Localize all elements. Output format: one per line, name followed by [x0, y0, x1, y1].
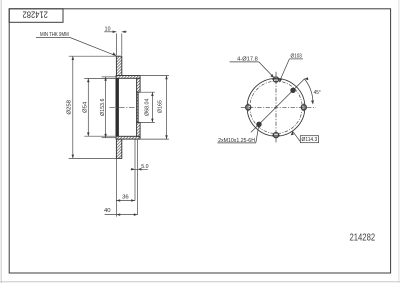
bolt hole bottom (&#216;17.8)	[272, 133, 280, 138]
hub outboard mounting face (thick dark bar)	[116, 78, 119, 136]
bolt hole left (&#216;17.8)	[246, 103, 251, 111]
hub cylinder bottom section (hatched)	[116, 136, 140, 139]
dimension &#216;153.6 (hub inner diameter)	[100, 77, 116, 138]
svg-text:Ø114.3: Ø114.3	[302, 137, 318, 143]
svg-text:MIN THK 9MM: MIN THK 9MM	[40, 32, 69, 38]
section view centerline	[109, 106, 135, 108]
svg-text:Ø258: Ø258	[67, 100, 73, 115]
threaded hole M10 upper-right	[291, 88, 296, 93]
dimension &#216;68.04 (counterbore diameter)	[138, 92, 154, 122]
bolt hole right (&#216;17.8)	[301, 103, 306, 111]
svg-text:Ø165: Ø165	[157, 100, 163, 113]
dimension 5.0 (counterbore depth)	[131, 139, 149, 215]
dimension &#216;258 (outer diameter)	[67, 56, 117, 158]
svg-text:2xM10x1.25-6H: 2xM10x1.25-6H	[218, 138, 255, 144]
dimension &#216;165 (hub outer diameter)	[141, 76, 169, 140]
svg-text:214282: 214282	[350, 233, 376, 244]
part number 214282 top-left (rotated 180)	[23, 8, 48, 19]
svg-text:45°: 45°	[314, 90, 321, 96]
dimension 36 (hub depth)	[116, 158, 135, 216]
threaded hole M10 lower-left	[257, 122, 262, 127]
bolt circle &#216;103 (dashed)	[250, 81, 302, 133]
svg-text:36: 36	[122, 194, 129, 200]
dimension &#216;54 (centre hole)	[83, 78, 116, 136]
bolt hole top (&#216;17.8)	[272, 77, 280, 82]
45 degree diagonal centerline	[251, 79, 305, 133]
svg-text:4-Ø17.8: 4-Ø17.8	[237, 56, 258, 62]
leader note 2xM10x1.25-6H (threaded holes)	[217, 123, 259, 144]
svg-text:Ø153.6: Ø153.6	[100, 99, 106, 116]
dimension 10 (disc thickness)	[104, 26, 127, 55]
leader note &#216;103 (bolt circle)	[279, 54, 303, 83]
svg-text:Ø103: Ø103	[291, 54, 302, 60]
hub flange wall section with counterbore (hatched)	[137, 78, 141, 136]
front view vertical centerline	[275, 72, 277, 143]
dimension 45 degree arc	[304, 77, 320, 104]
svg-text:214282: 214282	[23, 8, 48, 19]
hub outline circle &#216;114.3 (front view)	[247, 78, 305, 136]
friction ring section (hatched, section view)	[116, 56, 121, 158]
svg-text:40: 40	[104, 208, 111, 214]
svg-text:Ø68.04: Ø68.04	[145, 98, 151, 116]
front view horizontal centerline	[241, 106, 316, 108]
svg-text:5.0: 5.0	[141, 164, 148, 170]
svg-text:Ø54: Ø54	[83, 101, 89, 113]
dimension 40 (overall height)	[104, 208, 138, 216]
svg-text:10: 10	[105, 26, 111, 32]
boxed label &#216;114.3 with leader	[291, 131, 319, 143]
hub cylinder top section (hatched)	[116, 76, 140, 79]
leader note MIN THK 9MM	[36, 32, 116, 56]
leader note 4-&#216;17.8 (bolt holes)	[230, 56, 275, 77]
